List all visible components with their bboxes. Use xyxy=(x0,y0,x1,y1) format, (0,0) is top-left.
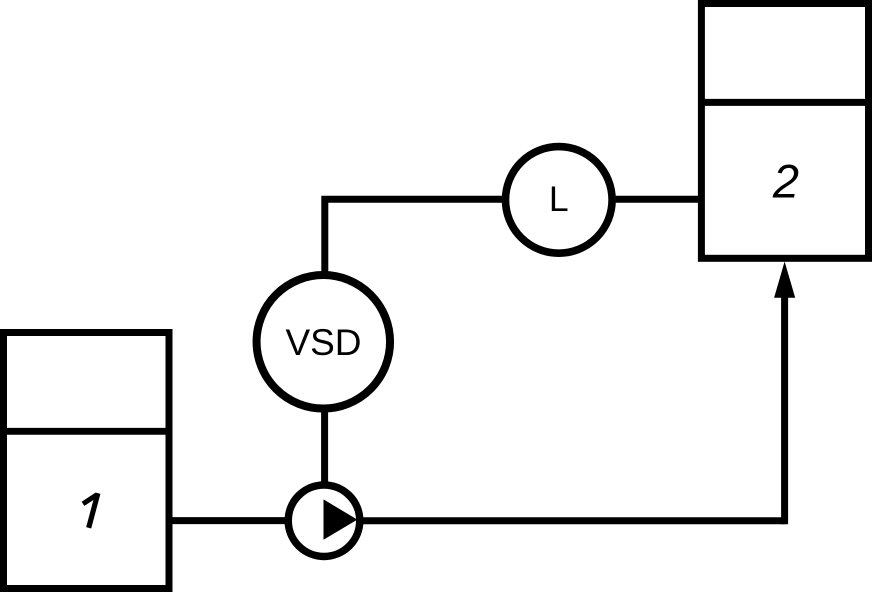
instrument L (level sensor) xyxy=(506,147,613,254)
pump arrow (impeller symbol) xyxy=(324,499,358,539)
svg-text:L: L xyxy=(549,179,569,219)
tank 2 (destination vessel) xyxy=(701,4,868,259)
wire: riser up to tank 2 xyxy=(781,294,788,524)
svg-text:2: 2 xyxy=(772,154,799,207)
wire: tank 1 outlet to pump xyxy=(169,517,288,524)
arrowhead into tank 2 xyxy=(774,262,795,298)
pump P1 xyxy=(288,485,360,557)
tank 1 (source vessel) xyxy=(4,333,170,589)
VSD circle (variable speed drive) xyxy=(257,275,391,409)
label 1 (drawn: italic one without foot serif) xyxy=(83,493,98,528)
tank 2 level line xyxy=(701,99,868,106)
wire: VSD up and over to level sensor xyxy=(325,199,503,274)
tank 1 level line xyxy=(4,428,170,435)
wire: level sensor to tank 2 xyxy=(616,196,702,203)
wire: pump to VSD xyxy=(321,409,328,484)
svg-text:VSD: VSD xyxy=(285,322,361,363)
wire: pump discharge to riser xyxy=(360,517,785,524)
